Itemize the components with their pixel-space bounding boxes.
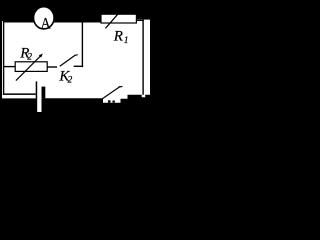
svg-text:2: 2: [27, 53, 32, 63]
rheostat arrow R2: [16, 54, 43, 81]
label R1: [113, 28, 129, 45]
label R2: [19, 45, 32, 62]
ammeter A: [34, 7, 55, 33]
switch K1 blade: [103, 86, 123, 98]
label K2: [58, 69, 72, 86]
slash R1: [106, 9, 123, 28]
right wire: [142, 20, 143, 95]
switch K2 blade: [60, 55, 78, 66]
svg-text:2: 2: [68, 76, 73, 86]
white panel: [2, 20, 150, 112]
svg-text:A: A: [41, 16, 52, 33]
label K1 (clipped top): [108, 100, 115, 102]
branch wire left: [3, 66, 16, 67]
battery thick plate: [42, 87, 46, 99]
mid rail wire: [82, 21, 83, 67]
battery thin plate: [36, 81, 38, 98]
top wire: [3, 20, 144, 23]
resistor R1 box: [101, 14, 136, 23]
resistor R2 box: [15, 62, 47, 72]
svg-text:R: R: [113, 28, 123, 44]
branch wire right: [74, 66, 83, 67]
left wire: [3, 21, 4, 95]
bottom wire: [3, 93, 36, 95]
svg-text:1: 1: [124, 36, 129, 46]
branch wire middle: [47, 66, 57, 67]
